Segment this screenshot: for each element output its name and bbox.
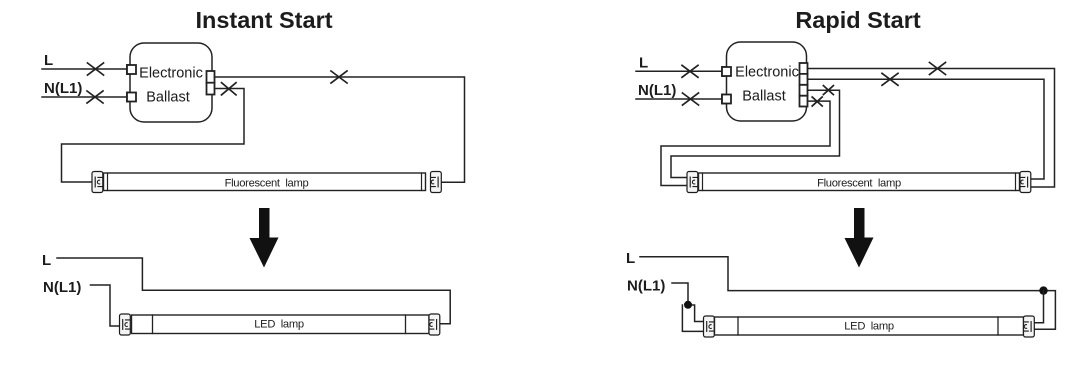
- LED tube: [132, 315, 430, 334]
- LED end cap left with electrode: [120, 314, 131, 335]
- ballast U1 (Electronic Ballast): [130, 43, 212, 122]
- cut mark X on N wire right: [683, 93, 699, 105]
- svg-text:LED lamp: LED lamp: [254, 319, 304, 331]
- wire branch to LED left pin 1: [688, 305, 704, 322]
- tube section line right: [997, 317, 999, 335]
- LED lamp LED1: [120, 314, 440, 335]
- lamp end cap left with electrode: [92, 172, 103, 193]
- wire lamp output 2 (to left lamp end): [62, 89, 245, 183]
- cut mark X on output 1: [331, 71, 347, 83]
- wire N input right: [636, 98, 722, 100]
- terminal N on ballast: [127, 93, 136, 102]
- svg-text:L: L: [626, 250, 635, 267]
- terminal N on ballast right: [722, 95, 731, 104]
- LED end cap right with electrode: [1024, 316, 1035, 337]
- tube end line right: [1015, 173, 1017, 191]
- cut mark X on N wire: [87, 91, 103, 103]
- wire L to LED lamp right: [640, 257, 1055, 330]
- lamp tube: [699, 173, 1020, 191]
- svg-text:Electronic: Electronic: [139, 65, 203, 81]
- svg-text:L: L: [42, 252, 51, 269]
- svg-text:Electronic: Electronic: [735, 65, 799, 81]
- tube end line right: [421, 173, 423, 191]
- svg-text:Fluorescent lamp: Fluorescent lamp: [817, 178, 901, 190]
- lamp end cap left with electrode: [687, 172, 698, 193]
- wire output 3 (to left lamp end pin 1): [671, 90, 840, 177]
- tube section line left: [737, 317, 739, 335]
- LED tube: [715, 317, 1024, 335]
- wire N to LED lamp: [91, 285, 121, 326]
- svg-text:N(L1): N(L1): [44, 80, 82, 97]
- svg-text:LED lamp: LED lamp: [844, 321, 894, 333]
- wire lamp output 1 (top, to right lamp end): [215, 77, 465, 182]
- tube section line left: [152, 315, 154, 334]
- junction dot right: [1039, 286, 1047, 294]
- cut mark X on output 2: [222, 83, 237, 95]
- svg-text:Ballast: Ballast: [742, 89, 786, 105]
- cut mark X on output 3: [823, 86, 833, 95]
- terminal block output (4 terminals): [800, 63, 808, 107]
- fluorescent lamp FL1: [92, 172, 441, 193]
- svg-text:Ballast: Ballast: [146, 89, 190, 105]
- tube end line left: [107, 173, 109, 191]
- wire L input: [42, 68, 127, 70]
- junction dot left: [684, 301, 692, 309]
- svg-text:Fluorescent lamp: Fluorescent lamp: [225, 178, 309, 190]
- LED lamp LED2: [704, 316, 1035, 337]
- LED end cap right with electrode: [429, 314, 440, 335]
- wire output 1 (to right lamp end pin 2): [808, 69, 1055, 188]
- wire branch to LED left pin 2: [682, 305, 703, 331]
- LED end cap left with electrode: [704, 316, 715, 337]
- wire output 2 (to right lamp end pin 1): [808, 79, 1045, 179]
- tube section line right: [405, 315, 407, 334]
- svg-text:N(L1): N(L1): [627, 278, 665, 295]
- cut mark X on output 4: [812, 97, 822, 106]
- svg-text:N(L1): N(L1): [638, 82, 676, 99]
- cut mark X on output 2: [882, 73, 898, 85]
- wire L to LED lamp: [57, 258, 450, 324]
- wire N to junction: [672, 283, 688, 303]
- lamp end cap right with electrode: [431, 172, 442, 193]
- svg-text:L: L: [639, 55, 648, 72]
- conversion arrow down right: [845, 208, 874, 268]
- tube end line left: [702, 173, 704, 191]
- lamp end cap right with electrode: [1020, 172, 1031, 193]
- wire N input: [42, 96, 127, 98]
- cut mark X on output 1: [930, 63, 946, 75]
- fluorescent lamp FL2: [687, 172, 1031, 193]
- terminal L on ballast right: [722, 67, 731, 76]
- svg-text:N(L1): N(L1): [43, 279, 81, 296]
- ballast U2 (Electronic Ballast): [727, 42, 807, 121]
- cut mark X on L wire right: [682, 65, 698, 77]
- lamp tube: [104, 173, 426, 191]
- svg-text:Instant Start: Instant Start: [195, 7, 332, 33]
- terminal block output (2 terminals): [207, 71, 215, 95]
- conversion arrow down: [250, 208, 279, 268]
- svg-text:Rapid Start: Rapid Start: [795, 7, 921, 33]
- cut mark X on L wire: [88, 63, 104, 75]
- terminal L on ballast: [127, 65, 136, 74]
- wire branch to LED pin right: [1033, 291, 1043, 323]
- wire output 4 (to left lamp end pin 2): [661, 101, 830, 185]
- svg-text:L: L: [44, 52, 53, 69]
- wire L input right: [636, 70, 722, 72]
